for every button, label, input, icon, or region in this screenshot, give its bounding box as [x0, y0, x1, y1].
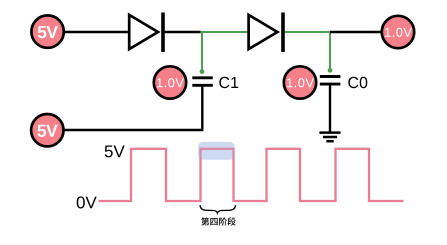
label 0V waveform low	[77, 196, 97, 208]
ground	[319, 133, 340, 142]
capacitor C1 plates	[192, 78, 213, 86]
junction dot node B at C0	[328, 68, 333, 73]
voltmeter 1.0V output	[382, 16, 414, 48]
wire D1 cathode to node A	[163, 31, 201, 33]
diode D1	[129, 13, 163, 53]
wire (green) node A to D2 anode	[200, 31, 248, 33]
voltage source V2 5V	[31, 114, 63, 146]
wire (green) node B down to C0 top	[329, 31, 331, 69]
junction dot node A at C1	[200, 69, 205, 74]
capacitor C0 plates	[320, 77, 341, 85]
wire C1 bottom down	[201, 86, 203, 130]
wire node B to output voltmeter	[330, 31, 381, 33]
voltmeter 1.0V at C0	[284, 66, 316, 98]
voltage source V1 5V	[31, 15, 63, 47]
diode D2	[249, 13, 283, 53]
label C1	[219, 77, 238, 88]
wire from V1 to D1 anode	[64, 31, 129, 33]
label C0	[348, 77, 367, 88]
wire (green) D2 cathode to node B	[283, 31, 331, 33]
wire C1 bottom to V2	[64, 129, 203, 131]
highlight fourth stage pulse (over layer)	[198, 142, 234, 160]
wire (green) node A down to C1 top	[201, 31, 203, 71]
brace under fourth stage	[200, 205, 236, 213]
waveform clock square wave	[99, 149, 404, 201]
label fourth-stage text (CJK glyph outlines)	[201, 217, 236, 225]
voltmeter 1.0V at C1	[154, 66, 186, 98]
highlight fourth stage pulse (under layer)	[198, 142, 234, 160]
label 5V waveform high	[105, 146, 125, 158]
wire C0 bottom to ground	[329, 85, 331, 133]
